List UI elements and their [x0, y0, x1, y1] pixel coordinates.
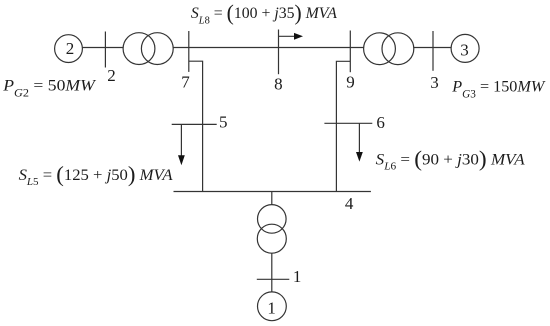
bus 3 bar: [432, 31, 434, 71]
wire T2 to T3 main line through buses 7,8,9: [173, 47, 363, 49]
svg-text:1: 1: [267, 298, 276, 317]
load arrow bus 8 head: [294, 33, 303, 40]
bus 5 bar: [172, 123, 217, 125]
wire gen2 to transformer T2: [83, 47, 124, 49]
svg-text:4: 4: [345, 194, 354, 213]
generator G1 circle: [258, 292, 287, 321]
bus 7 bar: [188, 31, 190, 72]
generator G2 circle: [55, 35, 83, 63]
svg-text:PG2 = 50MW: PG2 = 50MW: [2, 75, 96, 99]
wire T3 to gen3: [414, 47, 451, 49]
bus 6 bar: [324, 122, 372, 124]
wire bus4 to transformer T1: [271, 192, 273, 205]
wire bus7 to bus5 branch: [189, 61, 203, 191]
svg-text:PG3 = 150MW: PG3 = 150MW: [451, 76, 545, 100]
generator G3 circle: [451, 34, 479, 62]
svg-text:9: 9: [346, 72, 355, 91]
svg-text:3: 3: [460, 41, 469, 60]
bus 4 bar: [174, 191, 371, 193]
svg-text:2: 2: [66, 39, 75, 58]
wire T1 to gen1 through bus 1: [271, 253, 273, 292]
bus 8 bar: [278, 30, 280, 75]
svg-text:SL6 = (90 + j30) MVA: SL6 = (90 + j30) MVA: [376, 146, 525, 173]
load arrow bus 5 shaft: [180, 124, 182, 156]
svg-text:5: 5: [219, 113, 228, 132]
transformer T2: [123, 33, 155, 65]
svg-text:3: 3: [430, 73, 439, 92]
wire bus9 to bus6 branch: [336, 61, 350, 191]
bus 1 bar: [257, 278, 290, 280]
load arrow bus 5 head: [178, 155, 185, 165]
transformer T1: [258, 205, 287, 234]
svg-text:6: 6: [376, 113, 385, 132]
transformer T3: [364, 33, 396, 65]
bus 2 bar: [104, 32, 106, 68]
svg-text:SL5 = (125 + j50) MVA: SL5 = (125 + j50) MVA: [19, 162, 173, 189]
load arrow bus 6 shaft: [358, 123, 360, 153]
svg-text:7: 7: [181, 72, 190, 91]
svg-text:1: 1: [293, 267, 302, 286]
svg-text:2: 2: [107, 66, 116, 85]
load arrow bus 6 head: [356, 152, 363, 162]
load arrow bus 8 shaft: [279, 35, 296, 37]
svg-text:SL8 = (100 + j35) MVA: SL8 = (100 + j35) MVA: [191, 0, 337, 26]
svg-text:8: 8: [274, 75, 283, 94]
bus 9 bar: [349, 31, 351, 73]
